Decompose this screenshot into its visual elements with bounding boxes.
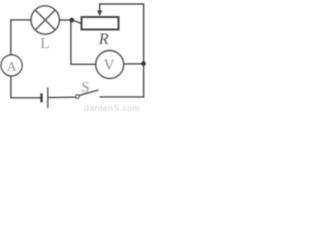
wire: lamp right lead to node bbox=[59, 19, 70, 21]
switch S bbox=[76, 90, 99, 99]
ammeter A bbox=[1, 55, 22, 76]
battery: short thick plate (negative) bbox=[40, 93, 42, 102]
wire: node to resistor left terminal bbox=[73, 20, 81, 23]
label A bbox=[7, 62, 17, 71]
wire: left vertical from corner down to ammeter bbox=[10, 19, 12, 55]
label R bbox=[99, 34, 109, 44]
lamp L (circle with X) bbox=[31, 6, 59, 34]
voltmeter V bbox=[96, 51, 124, 79]
node junction dot (lamp/resistor/voltmeter) bbox=[69, 18, 74, 23]
label V bbox=[104, 60, 115, 70]
rheostat wiper arrow onto resistor top bbox=[97, 4, 102, 16]
wire: top horizontal from wiper to right corner bbox=[99, 3, 144, 5]
wire: top-left horizontal from corner to lamp bbox=[10, 19, 31, 21]
wire: ammeter bottom down and right to battery bbox=[11, 76, 41, 98]
wire: switch fixed contact to right corner bbox=[100, 96, 145, 98]
battery: long thin plate (positive) bbox=[47, 87, 49, 108]
wire: node down to voltmeter left lead bbox=[71, 20, 96, 64]
wire: battery to switch pivot bbox=[49, 96, 76, 98]
label S bbox=[82, 82, 88, 92]
label L bbox=[41, 38, 49, 48]
watermark text bbox=[84, 105, 139, 111]
resistor R (rheostat box) bbox=[82, 17, 119, 30]
wire: voltmeter right lead to right wire bbox=[124, 63, 143, 65]
node junction dot on right wire bbox=[141, 61, 146, 66]
wire: right vertical bbox=[143, 3, 145, 97]
